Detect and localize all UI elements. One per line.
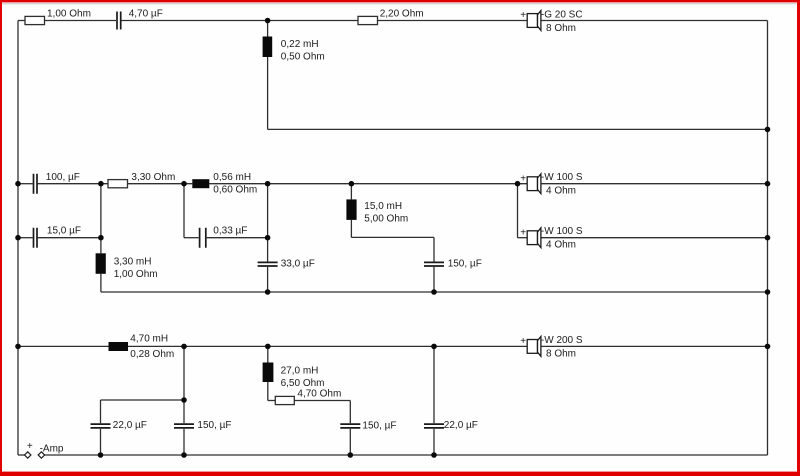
node bottom rail 150uF — [181, 452, 187, 458]
wire C 150 second bottom to rail — [349, 429, 351, 455]
node top tweeter tap — [265, 18, 271, 24]
wire C 0,33 to node C column — [207, 237, 268, 239]
resistor 1,00 Ohm — [25, 16, 45, 24]
wire to second speaker — [518, 237, 528, 239]
svg-text:4,70 µF: 4,70 µF — [129, 9, 163, 20]
node D — [349, 181, 355, 187]
node B — [181, 181, 187, 187]
svg-text:-G 20 SC: -G 20 SC — [541, 10, 583, 21]
inductor 15,0 mH — [346, 199, 356, 220]
inductor 4,70 mH — [109, 342, 129, 351]
wire mid row: L 0,56 to speaker W100S — [209, 183, 527, 185]
red frame top — [0, 0, 800, 2]
wire node B corner to C 0,33 — [184, 237, 199, 239]
node bottom rail 22uF — [98, 452, 104, 458]
capacitor 150 uF bottom-left plates — [174, 424, 194, 428]
svg-text:15,0 µF: 15,0 µF — [47, 226, 81, 237]
svg-text:0,33 µF: 0,33 µF — [213, 226, 247, 237]
node bottom rail 150uF second — [348, 452, 354, 458]
wire mid row: rail to C 100 — [18, 183, 33, 185]
red frame left — [0, 0, 2, 476]
wire C 22 bottom to bottom rail — [100, 429, 102, 455]
wire L 27 to R 4,70 — [268, 400, 276, 402]
capacitor 0,33 uF plates — [200, 228, 206, 248]
node E — [515, 181, 521, 187]
wire second speaker to right rail — [541, 237, 768, 239]
wire C 22 top — [100, 400, 102, 423]
wire C 150 mid bottom to mid rail — [433, 267, 435, 292]
wire woofer row: L 4,70 to speaker W200S — [128, 345, 527, 347]
inductor 3,30 mH — [96, 253, 106, 273]
svg-text:8 Ohm: 8 Ohm — [546, 349, 576, 360]
capacitor 33,0 uF plates — [258, 262, 278, 266]
wire node E down to second speaker — [517, 184, 519, 238]
svg-text:0,56 mH: 0,56 mH — [213, 172, 251, 183]
svg-text:8 Ohm: 8 Ohm — [546, 23, 576, 34]
svg-text:22,0 µF: 22,0 µF — [113, 420, 147, 431]
wire C 22 second bottom to rail — [433, 429, 435, 455]
capacitor 22,0 uF plates — [91, 424, 111, 428]
svg-text:1,00 Ohm: 1,00 Ohm — [47, 9, 91, 20]
speaker W 200 S — [527, 337, 541, 357]
wire C 150 bottom to bottom rail — [183, 429, 185, 455]
red frame right — [797, 0, 800, 476]
wire node A down through L 3,30 to mid bottom rail — [100, 184, 102, 254]
resistor 2,20 Ohm — [358, 16, 378, 24]
inductor 0,22 mH — [263, 37, 273, 58]
node left rail mid 2 — [15, 235, 21, 241]
svg-text:33,0 µF: 33,0 µF — [281, 259, 315, 270]
wire woofer speaker to right rail — [541, 345, 768, 347]
node tweeter return — [765, 127, 771, 133]
wire top row: R 2,20 to speaker G20SC — [378, 20, 528, 22]
wire link to C 22 bottom left — [101, 399, 185, 401]
wire down to C 150 mid — [433, 237, 435, 261]
wire mid row: R 3,30 to L 0,56 — [128, 183, 193, 185]
node A — [98, 181, 104, 187]
wire L 15 bottom down — [350, 220, 352, 238]
svg-text:2,20 Ohm: 2,20 Ohm — [380, 8, 424, 19]
node C — [265, 181, 271, 187]
svg-text:6,50 Ohm: 6,50 Ohm — [281, 378, 325, 389]
svg-text:1,00 Ohm: 1,00 Ohm — [114, 269, 158, 280]
wire R 4,70 right — [294, 400, 350, 402]
wire left rail — [17, 21, 19, 456]
svg-text:-W 100 S: -W 100 S — [541, 226, 583, 237]
svg-text:+: + — [520, 173, 526, 184]
node A2 — [98, 235, 104, 241]
wire node C down to C 33 — [267, 184, 269, 262]
node left rail mid 1 — [15, 181, 21, 187]
svg-text:150, µF: 150, µF — [448, 259, 482, 270]
capacitor 150 uF bottom-mid plates — [340, 424, 360, 428]
speaker G 20 SC — [527, 11, 541, 31]
node F2 — [181, 397, 187, 403]
wire node to L 0,22 top — [267, 21, 269, 37]
svg-text:-Amp: -Amp — [40, 444, 64, 455]
wire bottom rail left stub to + terminal — [18, 454, 25, 456]
wire C 33 bottom to mid rail — [267, 267, 269, 292]
wire tweeter return row — [268, 128, 768, 130]
wire node F down to C 150 bottom — [183, 346, 185, 423]
capacitor 100 uF plates — [34, 174, 38, 194]
svg-text:0,22 mH: 0,22 mH — [281, 39, 319, 50]
resistor 4,70 Ohm — [275, 396, 294, 404]
wire row 15uF: C 15 to node A column — [38, 237, 101, 239]
resistor 3,30 Ohm — [108, 180, 128, 188]
svg-text:+: + — [27, 441, 33, 452]
amp terminal plus — [25, 452, 31, 458]
wire top row: C 4,70 to R 2,20 — [121, 20, 358, 22]
capacitor 22,0 uF second plates — [424, 424, 444, 428]
wire L 27 bottom down — [267, 382, 269, 401]
capacitor 4,70 uF plates — [117, 12, 121, 30]
wire mid bottom rail — [101, 291, 768, 293]
inductor 0,56 mH — [192, 179, 209, 188]
wire top row: R 1,00 to C 4,70 — [45, 20, 117, 22]
wire top row: speaker G20SC to right rail — [541, 20, 768, 22]
wire node G down to L 27 — [267, 346, 269, 362]
svg-text:150, µF: 150, µF — [197, 420, 231, 431]
speaker W 100 S lower — [527, 228, 541, 248]
wire woofer row: rail to L 4,70 — [18, 345, 109, 347]
svg-text:0,60 Ohm: 0,60 Ohm — [213, 184, 257, 195]
svg-text:+: + — [520, 10, 526, 21]
capacitor 150 uF mid plates — [424, 262, 444, 266]
svg-text:22,0 µF: 22,0 µF — [444, 420, 478, 431]
svg-text:3,30 mH: 3,30 mH — [114, 257, 152, 268]
svg-text:5,00 Ohm: 5,00 Ohm — [364, 214, 408, 225]
wire down to C 150 second — [349, 401, 351, 424]
svg-text:4,70 mH: 4,70 mH — [130, 334, 168, 345]
wire node H down to C 22 second — [433, 346, 435, 423]
svg-text:100, µF: 100, µF — [46, 172, 80, 183]
svg-text:15,0 mH: 15,0 mH — [364, 201, 402, 212]
node mid rail 150uF — [431, 289, 437, 295]
svg-text:150, µF: 150, µF — [362, 420, 396, 431]
wire top row: rail corner to R 1,00 — [18, 20, 25, 22]
amp terminal minus — [38, 452, 44, 458]
svg-text:4 Ohm: 4 Ohm — [546, 240, 576, 251]
inductor 27,0 mH — [263, 363, 274, 383]
svg-text:0,28 Ohm: 0,28 Ohm — [130, 349, 174, 360]
speaker W 100 S upper — [527, 174, 541, 194]
wire L 0,22 bottom down — [267, 57, 269, 129]
wire node B down — [183, 184, 185, 238]
svg-text:-W 200 S: -W 200 S — [541, 335, 583, 346]
svg-text:4,70 Ohm: 4,70 Ohm — [297, 389, 341, 400]
wire node D down to L 15 — [350, 184, 352, 200]
node G — [265, 344, 271, 350]
capacitor 15,0 uF plates — [34, 228, 38, 248]
svg-text:+: + — [520, 336, 526, 347]
svg-text:3,30 Ohm: 3,30 Ohm — [131, 172, 175, 183]
wire L 3,30 bottom down — [100, 274, 102, 292]
node F — [181, 344, 187, 350]
svg-text:4 Ohm: 4 Ohm — [546, 186, 576, 197]
wire right rail — [767, 21, 769, 456]
svg-text:0,50 Ohm: 0,50 Ohm — [281, 52, 325, 63]
node bottom rail 22uF second — [431, 452, 437, 458]
node right rail mid 2 — [765, 235, 771, 241]
svg-text:27,0 mH: 27,0 mH — [281, 366, 319, 377]
gray inner line — [3, 3, 797, 4]
node C2 — [265, 235, 271, 241]
node left rail woofer — [15, 344, 21, 350]
wire mid row: C 100 to node A — [38, 183, 108, 185]
red frame bottom — [0, 472, 800, 476]
node right rail mid bottom — [765, 289, 771, 295]
node mid rail 33uF — [265, 289, 271, 295]
node right rail mid 1 — [765, 181, 771, 187]
svg-text:-W 100 S: -W 100 S — [541, 172, 583, 183]
node right rail woofer — [765, 344, 771, 350]
svg-text:+: + — [520, 227, 526, 238]
node H — [431, 344, 437, 350]
wire bottom rail — [45, 454, 768, 456]
wire row 15uF: rail to C 15 — [18, 237, 33, 239]
wire mid row: speaker W100S to right rail — [541, 183, 768, 185]
wire L 15 branch horizontal — [351, 236, 434, 238]
